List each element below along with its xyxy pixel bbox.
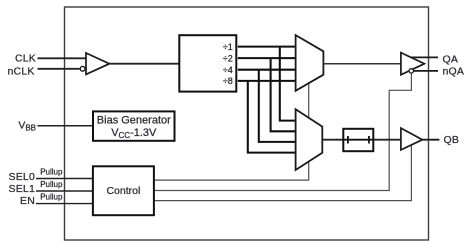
- outer block boundary: [65, 7, 429, 240]
- wire nCLK input: [38, 68, 80, 70]
- input buffer U1: [86, 53, 109, 74]
- svg-text:QA: QA: [443, 53, 459, 65]
- svg-text:nQA: nQA: [443, 66, 465, 78]
- svg-text:VCC-1.3V: VCC-1.3V: [111, 127, 157, 140]
- delay symbol right tick: [368, 136, 370, 144]
- wire buffer output to divider: [109, 63, 179, 65]
- svg-text:Pullup: Pullup: [40, 180, 63, 189]
- delay block: [343, 129, 373, 151]
- bubble nQA: [409, 69, 413, 73]
- QA output driver: [401, 53, 425, 75]
- svg-text:EN: EN: [20, 195, 35, 207]
- svg-text:nCLK: nCLK: [8, 66, 35, 78]
- wire div4 to upper mux: [238, 69, 296, 71]
- wire tap div1 to lower mux input 1: [280, 47, 296, 121]
- wire div1 to upper mux: [238, 46, 296, 48]
- svg-text:CLK: CLK: [15, 52, 36, 64]
- lower mux: [296, 109, 323, 170]
- bubble on nCLK buffer input: [80, 66, 85, 71]
- wire div2 to upper mux: [238, 57, 296, 59]
- wire tap div2 to lower mux input 2: [271, 58, 296, 131]
- control block: [93, 166, 154, 215]
- svg-text:Pullup: Pullup: [40, 193, 63, 202]
- wire SEL0 input: [36, 178, 93, 180]
- wire control select B to QA driver: [154, 74, 412, 191]
- svg-text:÷2: ÷2: [223, 53, 233, 63]
- svg-text:÷8: ÷8: [223, 76, 233, 86]
- wire CLK input: [38, 57, 87, 59]
- wire lower mux output to delay: [322, 139, 343, 141]
- svg-text:Bias Generator: Bias Generator: [97, 114, 171, 126]
- wire tap div8 to lower mux input 4: [248, 81, 296, 153]
- svg-text:Pullup: Pullup: [40, 168, 63, 177]
- svg-text:VBB: VBB: [18, 120, 36, 133]
- wire SEL1 input: [36, 190, 93, 192]
- delay symbol left tick: [347, 136, 349, 144]
- delay symbol line: [343, 139, 373, 141]
- svg-text:Control: Control: [106, 185, 140, 197]
- svg-text:÷4: ÷4: [223, 65, 233, 75]
- wire nQA output: [413, 70, 438, 72]
- svg-text:QB: QB: [444, 134, 460, 146]
- wire QB output: [422, 139, 439, 141]
- wire control select A to upper mux: [154, 83, 309, 180]
- QB output driver: [401, 128, 423, 150]
- wire VBB input: [38, 125, 94, 127]
- upper mux: [296, 35, 324, 91]
- divider block: [179, 35, 236, 91]
- wire upper mux output to QA driver: [323, 63, 401, 65]
- wire control select C to QB driver: [154, 145, 412, 201]
- wire EN input: [36, 203, 93, 205]
- wire QA output: [411, 56, 438, 58]
- svg-text:SEL1: SEL1: [9, 183, 36, 195]
- svg-text:÷1: ÷1: [223, 42, 233, 52]
- wire tap div4 to lower mux input 3: [259, 70, 296, 142]
- wire delay to QB driver: [373, 139, 401, 141]
- svg-text:SEL0: SEL0: [9, 171, 36, 183]
- wire div8 to upper mux: [238, 80, 296, 82]
- bias generator block: [93, 111, 175, 140]
